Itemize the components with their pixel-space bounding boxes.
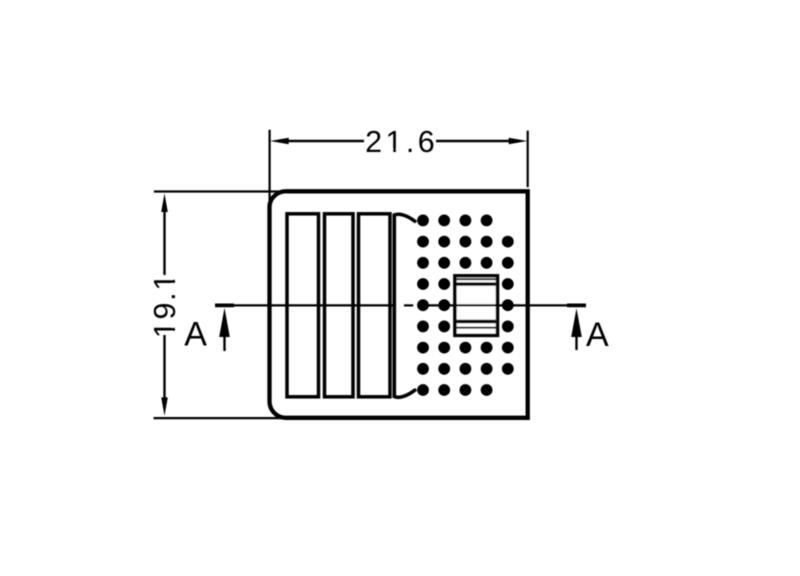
connector block (454, 276, 499, 336)
dimension 21.6 extension lines (269, 130, 271, 210)
svg-text:A: A (586, 316, 609, 354)
section arrow right (575, 336, 577, 350)
dimension 21.6 line (287, 140, 364, 142)
curved rib (394, 214, 415, 397)
grille dot row 2 (417, 236, 514, 248)
grille dot row 4 (417, 278, 514, 290)
section centerline A-A (215, 304, 586, 306)
grille dot row 3 (417, 257, 514, 269)
slot 2 (325, 214, 354, 397)
dimension 19.1 line (163, 212, 165, 276)
slot 1 (287, 214, 319, 397)
svg-text:19.1: 19.1 (148, 272, 182, 338)
grille dot row 7 (417, 342, 514, 354)
svg-text:A: A (184, 316, 207, 354)
body outline (269, 191, 527, 418)
dimension 19.1 bottom arrowhead (161, 397, 168, 416)
grille dot row 5 (417, 299, 514, 311)
dimension 21.6 left arrowhead (270, 138, 289, 145)
grille dot row 6 (417, 321, 514, 333)
slot 3 (359, 214, 391, 397)
grille dot row 8 (417, 363, 514, 375)
svg-text:21.6: 21.6 (365, 125, 438, 159)
grille dot row 1 (417, 215, 492, 227)
dimension 21.6 right arrowhead (509, 138, 528, 145)
dimension 19.1 extension lines (154, 190, 287, 192)
grille dot row 9 (417, 384, 492, 396)
dimension 19.1 top arrowhead (161, 193, 168, 212)
section arrow left (223, 336, 225, 351)
